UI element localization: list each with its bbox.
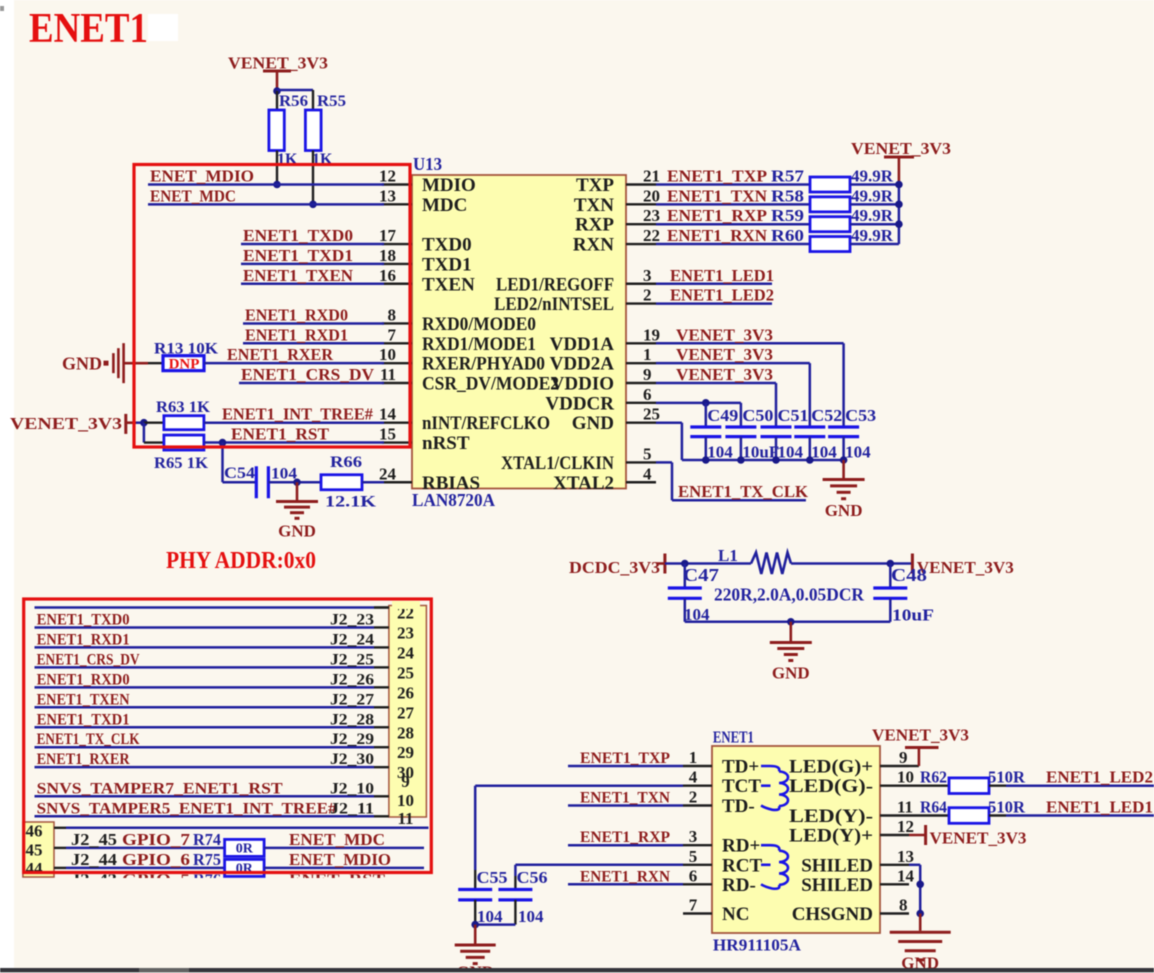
svg-text:VENET_3V3: VENET_3V3 — [917, 558, 1014, 577]
svg-text:HR911105A: HR911105A — [713, 936, 802, 955]
svg-text:NC: NC — [722, 904, 749, 925]
svg-text:TXP: TXP — [576, 175, 614, 196]
svg-text:C50: C50 — [742, 406, 773, 425]
svg-text:ENET1_RXD0: ENET1_RXD0 — [37, 671, 130, 688]
svg-text:C49: C49 — [707, 406, 738, 425]
svg-text:CSR_DV/MODE2: CSR_DV/MODE2 — [422, 374, 559, 395]
svg-text:9: 9 — [899, 748, 908, 767]
svg-text:ENET_MDIO: ENET_MDIO — [150, 167, 254, 186]
svg-text:6: 6 — [643, 385, 652, 404]
svg-text:ENET1_LED1: ENET1_LED1 — [1046, 798, 1153, 817]
svg-text:26: 26 — [397, 683, 414, 702]
svg-text:3: 3 — [689, 827, 698, 846]
svg-text:GND: GND — [772, 664, 810, 683]
svg-text:GND: GND — [278, 522, 316, 541]
svg-text:J2_45: J2_45 — [71, 830, 117, 849]
svg-text:ENET1: ENET1 — [713, 728, 754, 747]
svg-text:TD-: TD- — [722, 796, 755, 817]
svg-text:ENET_MDC: ENET_MDC — [289, 830, 385, 849]
svg-text:J2_30: J2_30 — [330, 751, 374, 768]
svg-text:27: 27 — [397, 703, 415, 722]
svg-text:ENET1_INT_TREE#: ENET1_INT_TREE# — [222, 405, 373, 424]
svg-text:21: 21 — [643, 167, 660, 186]
svg-text:J2_26: J2_26 — [330, 671, 374, 688]
svg-text:CHSGND: CHSGND — [792, 904, 873, 925]
svg-text:ENET1_RXP: ENET1_RXP — [580, 829, 670, 846]
svg-text:ENET_MDC: ENET_MDC — [150, 186, 236, 205]
svg-text:VDD1A: VDD1A — [550, 334, 615, 355]
svg-text:11: 11 — [897, 798, 913, 817]
svg-text:10uF: 10uF — [742, 443, 779, 462]
svg-text:25: 25 — [397, 663, 414, 682]
svg-text:18: 18 — [379, 246, 396, 265]
svg-text:ENET1_TXN: ENET1_TXN — [580, 790, 670, 807]
svg-text:11: 11 — [380, 365, 396, 384]
svg-text:R60: R60 — [771, 226, 804, 245]
svg-text:ENET1_RXER: ENET1_RXER — [37, 751, 130, 768]
svg-text:44: 44 — [26, 859, 44, 878]
svg-text:GND: GND — [572, 413, 614, 434]
svg-text:GND: GND — [825, 501, 863, 520]
svg-text:1: 1 — [689, 748, 698, 767]
svg-text:ENET1_TX_CLK: ENET1_TX_CLK — [37, 731, 140, 748]
svg-text:VENET_3V3: VENET_3V3 — [676, 365, 773, 384]
svg-text:nRST: nRST — [422, 433, 470, 454]
svg-text:104: 104 — [271, 466, 297, 483]
svg-text:RXP: RXP — [575, 215, 614, 236]
svg-text:8: 8 — [388, 305, 397, 324]
svg-text:GPIO_7: GPIO_7 — [122, 830, 191, 849]
svg-text:3: 3 — [643, 266, 652, 285]
svg-text:SHILED: SHILED — [801, 875, 873, 896]
svg-text:GND: GND — [62, 354, 102, 374]
svg-text:ENET1_RXP: ENET1_RXP — [667, 206, 767, 225]
svg-text:510R: 510R — [988, 798, 1026, 817]
svg-text:C48: C48 — [891, 565, 927, 585]
svg-text:R75: R75 — [193, 850, 221, 869]
svg-text:ENET1_RXN: ENET1_RXN — [667, 226, 768, 245]
svg-text:SNVS_TAMPER7_ENET1_RST: SNVS_TAMPER7_ENET1_RST — [37, 780, 283, 797]
svg-text:SNVS_TAMPER5_ENET1_INT_TREE#: SNVS_TAMPER5_ENET1_INT_TREE# — [37, 800, 337, 817]
svg-text:ENET1_RST: ENET1_RST — [231, 425, 330, 444]
svg-text:ENET1_CRS_DV: ENET1_CRS_DV — [37, 651, 140, 668]
svg-text:R66: R66 — [330, 454, 362, 471]
svg-text:R13 10K: R13 10K — [154, 341, 219, 358]
svg-text:J2_25: J2_25 — [330, 651, 374, 668]
svg-text:RXD0/MODE0: RXD0/MODE0 — [422, 314, 536, 335]
svg-text:R74: R74 — [193, 830, 221, 849]
svg-text:ENET1_TXD1: ENET1_TXD1 — [37, 711, 130, 728]
svg-text:VDDCR: VDDCR — [545, 393, 614, 414]
svg-text:R65 1K: R65 1K — [154, 455, 209, 472]
svg-text:C55: C55 — [477, 868, 508, 887]
svg-text:ENET1_CRS_DV: ENET1_CRS_DV — [241, 365, 375, 384]
svg-text:ENET1_LED1: ENET1_LED1 — [670, 266, 774, 285]
svg-text:104: 104 — [811, 443, 837, 462]
svg-text:10: 10 — [897, 768, 914, 787]
svg-text:C54: C54 — [224, 465, 255, 482]
svg-text:MDC: MDC — [422, 195, 467, 216]
svg-text:DNP: DNP — [169, 357, 200, 373]
svg-text:17: 17 — [379, 226, 397, 245]
svg-text:RXD1/MODE1: RXD1/MODE1 — [422, 334, 536, 355]
svg-text:LED2/nINTSEL: LED2/nINTSEL — [494, 294, 614, 315]
svg-text:104: 104 — [707, 443, 733, 462]
svg-text:49.9R: 49.9R — [851, 167, 894, 186]
svg-text:TXD1: TXD1 — [422, 254, 472, 275]
svg-text:5: 5 — [689, 847, 698, 866]
svg-text:7: 7 — [388, 325, 397, 344]
svg-text:23: 23 — [643, 206, 660, 225]
svg-text:ENET1_LED2: ENET1_LED2 — [670, 286, 774, 305]
svg-text:13: 13 — [897, 847, 914, 866]
svg-text:4: 4 — [643, 464, 652, 483]
svg-text:23: 23 — [397, 623, 414, 642]
svg-text:LED(G)+: LED(G)+ — [789, 757, 873, 778]
svg-text:RCT: RCT — [722, 855, 762, 876]
svg-text:XTAL1/CLKIN: XTAL1/CLKIN — [501, 453, 614, 474]
svg-text:DCDC_3V3: DCDC_3V3 — [569, 558, 660, 577]
svg-text:C51: C51 — [778, 406, 809, 425]
svg-text:VDD2A: VDD2A — [550, 354, 615, 375]
svg-text:VENET_3V3: VENET_3V3 — [676, 325, 773, 344]
svg-text:ENET1_TXD0: ENET1_TXD0 — [243, 226, 353, 245]
svg-text:R64: R64 — [920, 798, 947, 817]
svg-text:ENET1_TXD1: ENET1_TXD1 — [243, 246, 353, 265]
svg-text:14: 14 — [379, 405, 397, 424]
svg-text:49.9R: 49.9R — [851, 226, 894, 245]
svg-text:2: 2 — [689, 788, 698, 807]
svg-text:R57: R57 — [771, 167, 805, 186]
svg-text:LED1/REGOFF: LED1/REGOFF — [496, 274, 614, 295]
svg-text:104: 104 — [518, 907, 544, 926]
svg-text:J2_23: J2_23 — [330, 611, 374, 628]
svg-text:RD+: RD+ — [722, 836, 760, 857]
svg-text:14: 14 — [897, 866, 915, 885]
svg-text:45: 45 — [26, 841, 43, 860]
svg-text:R55: R55 — [317, 93, 346, 110]
svg-text:XTAL2: XTAL2 — [553, 473, 614, 494]
svg-text:R58: R58 — [771, 186, 804, 205]
svg-text:ENET1_TXN: ENET1_TXN — [667, 186, 768, 205]
svg-text:RXER/PHYAD0: RXER/PHYAD0 — [422, 354, 545, 375]
svg-text:TXEN: TXEN — [422, 274, 475, 295]
svg-text:TXD0: TXD0 — [422, 235, 472, 256]
svg-text:9: 9 — [401, 772, 410, 791]
svg-text:13: 13 — [379, 186, 396, 205]
svg-text:ENET1_TXEN: ENET1_TXEN — [37, 691, 130, 708]
svg-text:R59: R59 — [771, 206, 804, 225]
svg-text:VENET_3V3: VENET_3V3 — [10, 414, 122, 433]
svg-text:U13: U13 — [413, 154, 442, 174]
svg-text:J2_10: J2_10 — [330, 780, 374, 797]
svg-text:RXN: RXN — [573, 235, 614, 256]
svg-text:104: 104 — [477, 907, 503, 926]
svg-text:J2_27: J2_27 — [330, 691, 374, 708]
svg-text:TD+: TD+ — [722, 757, 759, 778]
svg-text:2: 2 — [643, 286, 652, 305]
svg-text:VENET_3V3: VENET_3V3 — [851, 139, 951, 158]
svg-text:R56: R56 — [279, 93, 308, 110]
svg-text:5: 5 — [643, 444, 652, 463]
svg-text:VENET_3V3: VENET_3V3 — [930, 829, 1027, 848]
svg-text:VENET_3V3: VENET_3V3 — [872, 726, 969, 745]
svg-text:C53: C53 — [845, 406, 876, 425]
svg-text:11: 11 — [397, 809, 413, 828]
svg-text:0R: 0R — [236, 861, 254, 876]
svg-text:SHILED: SHILED — [801, 855, 873, 876]
svg-text:R63 1K: R63 1K — [156, 399, 211, 416]
svg-text:VENET_3V3: VENET_3V3 — [676, 345, 773, 364]
svg-text:ENET1_RXD1: ENET1_RXD1 — [37, 631, 130, 648]
svg-text:L1: L1 — [718, 546, 738, 565]
svg-text:MDIO: MDIO — [422, 175, 476, 196]
svg-text:ENET_MDIO: ENET_MDIO — [289, 850, 391, 869]
svg-text:PHY ADDR:0x0: PHY ADDR:0x0 — [166, 548, 316, 574]
svg-text:220R,2.0A,0.05DCR: 220R,2.0A,0.05DCR — [714, 585, 864, 605]
svg-text:1: 1 — [643, 345, 652, 364]
svg-text:RBIAS: RBIAS — [422, 473, 480, 494]
svg-text:GPIO_6: GPIO_6 — [122, 850, 190, 869]
svg-text:LED(Y)+: LED(Y)+ — [789, 826, 873, 847]
svg-text:10: 10 — [397, 791, 414, 810]
svg-text:8: 8 — [899, 896, 908, 915]
svg-text:22: 22 — [643, 226, 660, 245]
svg-text:28: 28 — [397, 723, 414, 742]
svg-text:LED(G)-: LED(G)- — [789, 776, 873, 797]
svg-text:7: 7 — [689, 896, 698, 915]
svg-text:104: 104 — [845, 443, 871, 462]
svg-text:ENET1_RXN: ENET1_RXN — [580, 868, 670, 885]
svg-text:46: 46 — [26, 822, 43, 841]
svg-text:ENET1_RXD1: ENET1_RXD1 — [245, 325, 348, 344]
svg-text:J2_11: J2_11 — [330, 800, 374, 817]
svg-text:12: 12 — [379, 167, 396, 186]
svg-text:nINT/REFCLKO: nINT/REFCLKO — [422, 413, 550, 434]
svg-text:ENET1: ENET1 — [29, 6, 148, 52]
svg-text:49.9R: 49.9R — [851, 186, 894, 205]
svg-text:49.9R: 49.9R — [851, 206, 894, 225]
svg-text:20: 20 — [643, 186, 660, 205]
svg-text:ENET1_TXEN: ENET1_TXEN — [243, 266, 354, 285]
svg-text:ENET1_LED2: ENET1_LED2 — [1046, 768, 1153, 787]
svg-text:TCT: TCT — [722, 776, 761, 797]
svg-text:J2_29: J2_29 — [330, 731, 374, 748]
svg-text:J2_44: J2_44 — [71, 850, 118, 869]
svg-text:12.1K: 12.1K — [325, 494, 377, 511]
svg-text:C52: C52 — [811, 406, 842, 425]
svg-text:4: 4 — [689, 768, 698, 787]
svg-text:C47: C47 — [683, 565, 719, 585]
svg-text:TXN: TXN — [574, 195, 614, 216]
svg-text:16: 16 — [379, 266, 396, 285]
svg-text:J2_24: J2_24 — [330, 631, 374, 648]
svg-text:VDDIO: VDDIO — [551, 374, 614, 395]
svg-text:9: 9 — [643, 365, 652, 384]
svg-text:ENET1_TXP: ENET1_TXP — [580, 750, 670, 767]
svg-text:24: 24 — [397, 643, 415, 662]
svg-text:RD-: RD- — [722, 875, 756, 896]
svg-text:ENET1_TX_CLK: ENET1_TX_CLK — [678, 482, 809, 501]
svg-text:ENET1_TXP: ENET1_TXP — [667, 167, 767, 186]
svg-text:12: 12 — [897, 817, 914, 836]
svg-text:J2_28: J2_28 — [330, 711, 374, 728]
svg-text:ENET1_RXD0: ENET1_RXD0 — [245, 305, 348, 324]
svg-text:10uF: 10uF — [892, 606, 934, 625]
svg-text:19: 19 — [643, 325, 660, 344]
svg-text:LED(Y)-: LED(Y)- — [789, 806, 873, 827]
svg-text:ENET1_TXD0: ENET1_TXD0 — [37, 611, 130, 628]
svg-text:ENET1_RXER: ENET1_RXER — [227, 345, 334, 364]
svg-text:0R: 0R — [236, 841, 254, 856]
svg-text:R62: R62 — [920, 768, 947, 787]
svg-text:510R: 510R — [988, 768, 1026, 787]
svg-text:25: 25 — [643, 405, 660, 424]
svg-text:15: 15 — [379, 425, 396, 444]
svg-text:24: 24 — [379, 464, 397, 483]
svg-text:10: 10 — [379, 345, 396, 364]
svg-text:29: 29 — [397, 743, 414, 762]
svg-text:6: 6 — [689, 866, 698, 885]
svg-text:C56: C56 — [517, 868, 548, 887]
svg-text:104: 104 — [778, 443, 804, 462]
